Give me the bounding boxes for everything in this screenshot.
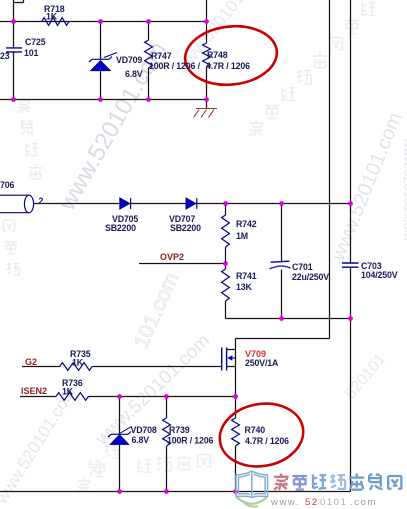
svg-text:R741: R741: [236, 271, 257, 281]
svg-text:22u/250V: 22u/250V: [292, 272, 329, 282]
svg-text:V709: V709: [245, 349, 266, 359]
svg-text:706: 706: [0, 180, 14, 190]
svg-text:104/250V: 104/250V: [361, 270, 398, 280]
svg-text:100R / 1206: 100R / 1206: [167, 436, 214, 446]
svg-text:13K: 13K: [236, 282, 252, 292]
svg-text:1K: 1K: [46, 12, 58, 22]
svg-text:C725: C725: [25, 37, 46, 47]
svg-text:2: 2: [39, 196, 44, 206]
svg-text:www.: www.: [270, 497, 300, 508]
svg-text:www.520101.com: www.520101.com: [327, 109, 407, 265]
svg-text:1K: 1K: [72, 358, 84, 368]
svg-text:250V/1A: 250V/1A: [245, 358, 279, 368]
svg-text:G2: G2: [25, 357, 37, 367]
svg-text:R742: R742: [236, 219, 257, 229]
svg-text:OVP2: OVP2: [160, 252, 184, 262]
svg-text:520101: 520101: [342, 351, 389, 403]
svg-text:www.520101.com: www.520101.com: [401, 137, 407, 241]
svg-text:R739: R739: [169, 425, 190, 435]
svg-text:.com: .com: [350, 497, 377, 508]
svg-text:100R / 1206 /: 100R / 1206 /: [149, 61, 201, 71]
svg-text:SB2200: SB2200: [170, 223, 201, 233]
svg-text:R748: R748: [207, 50, 228, 60]
svg-text:6.8V: 6.8V: [132, 435, 150, 445]
svg-text:4.7R / 1206: 4.7R / 1206: [206, 61, 250, 71]
svg-text:R747: R747: [151, 51, 172, 61]
svg-text:1K: 1K: [62, 387, 74, 397]
svg-text:4.7R / 1206: 4.7R / 1206: [245, 436, 289, 446]
svg-text:101: 101: [24, 48, 38, 58]
svg-text:1M: 1M: [236, 231, 248, 241]
svg-text:VD708: VD708: [131, 425, 157, 435]
svg-text:VD709: VD709: [116, 55, 142, 65]
svg-text:ISEN2: ISEN2: [21, 386, 47, 396]
svg-text:www.520101.com: www.520101.com: [0, 383, 80, 508]
svg-text:101.com: 101.com: [130, 269, 184, 352]
svg-text:C701: C701: [292, 262, 313, 272]
svg-text:52: 52: [305, 497, 319, 508]
svg-text:0101: 0101: [320, 497, 348, 508]
svg-text:6.8V: 6.8V: [125, 69, 143, 79]
svg-text:SB2200: SB2200: [105, 223, 136, 233]
svg-text:23: 23: [0, 51, 10, 61]
svg-text:R740: R740: [245, 425, 266, 435]
